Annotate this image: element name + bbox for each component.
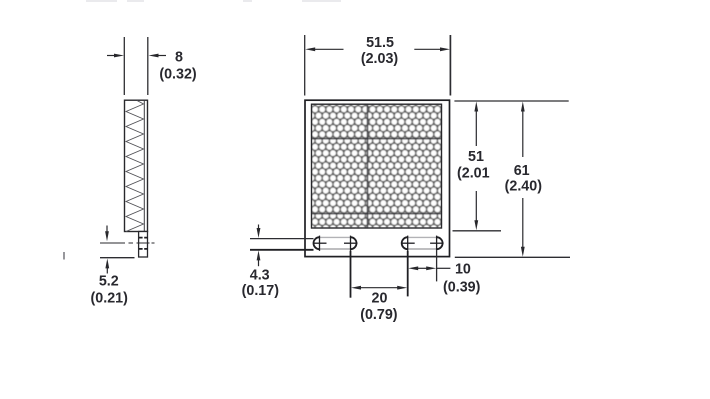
dimension 61 up arrow xyxy=(521,102,525,158)
svg-text:(0.21): (0.21) xyxy=(91,290,129,306)
dimension 4.3 down arrow xyxy=(257,225,261,239)
svg-text:20: 20 xyxy=(372,291,388,307)
centerline through tab xyxy=(100,242,155,244)
right slot left center mark xyxy=(401,236,415,251)
dimension 51 down arrow xyxy=(474,191,478,230)
svg-text:(0.32): (0.32) xyxy=(159,67,197,83)
dimension 10 line with arrows xyxy=(408,266,450,270)
slot width extension line bottom xyxy=(250,249,314,251)
dimension 20 line with arrows xyxy=(351,286,407,290)
right mounting slot xyxy=(402,237,443,249)
dimension 61 down arrow xyxy=(521,198,525,257)
extension line right of width 51.5 xyxy=(449,35,451,96)
cropped text remnants at top edge xyxy=(86,0,341,2)
svg-text:5.2: 5.2 xyxy=(99,273,119,289)
prism zigzag profile xyxy=(126,101,144,232)
svg-text:(0.39): (0.39) xyxy=(443,279,481,295)
svg-text:51: 51 xyxy=(468,149,484,165)
reflector area border xyxy=(312,104,442,228)
segment line horizontal upper xyxy=(312,138,442,140)
stray tick mark left edge xyxy=(63,252,65,260)
segment line horizontal lower xyxy=(312,213,442,215)
left slot left center mark xyxy=(313,236,327,251)
dimension 5.2 down arrow xyxy=(105,226,109,242)
svg-text:(2.40): (2.40) xyxy=(505,179,543,195)
extension line bottom of hatched area xyxy=(453,230,502,232)
dimension 5.2 up arrow xyxy=(105,258,109,273)
reflector hatched area xyxy=(312,104,442,228)
dimension 8 right arrow xyxy=(149,54,167,58)
side view body rectangle xyxy=(125,100,148,231)
dimension 51 up arrow xyxy=(474,102,478,147)
svg-text:61: 61 xyxy=(514,163,530,179)
svg-text:(0.79): (0.79) xyxy=(360,307,398,323)
svg-text:(2.01: (2.01 xyxy=(457,165,490,181)
dimension 8 left arrow xyxy=(107,54,124,58)
extension line from right slot right center xyxy=(436,251,438,282)
svg-text:10: 10 xyxy=(455,262,471,278)
svg-text:8: 8 xyxy=(175,50,183,66)
dimension 51.5 left arrow xyxy=(305,47,343,51)
left slot right center mark xyxy=(344,236,358,251)
side view inner face line xyxy=(143,100,145,231)
right slot right center mark xyxy=(430,236,444,251)
segment line vertical center xyxy=(367,104,369,228)
extension line left of width 8 xyxy=(123,37,125,95)
dimension 4.3 up arrow xyxy=(257,250,261,266)
top extension line for heights xyxy=(454,100,568,102)
extension line right of width 8 xyxy=(147,37,149,95)
svg-text:4.3: 4.3 xyxy=(250,267,270,283)
tab hidden thread line upper xyxy=(139,237,148,239)
left mounting slot xyxy=(314,237,357,249)
front panel outer rectangle xyxy=(305,100,450,256)
extension line bottom of tab xyxy=(100,257,135,259)
extension line from left slot right center xyxy=(350,251,352,298)
svg-text:51.5: 51.5 xyxy=(366,35,394,51)
svg-text:(0.17): (0.17) xyxy=(242,283,280,299)
extension line from right slot left center xyxy=(407,251,409,297)
dimension 51.5 right arrow xyxy=(414,47,450,51)
slot width extension line top xyxy=(250,238,314,240)
svg-text:(2.03): (2.03) xyxy=(361,51,399,67)
bottom extension line for total height xyxy=(455,256,570,258)
mounting tab xyxy=(139,232,148,258)
extension line left of width 51.5 xyxy=(304,35,306,96)
tab hidden thread line lower xyxy=(139,248,148,250)
